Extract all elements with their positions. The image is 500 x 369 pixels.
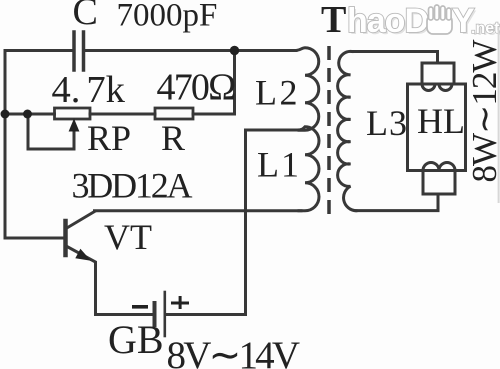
inductor L1 winding [297, 127, 319, 211]
svg-text:8V∼14V: 8V∼14V [167, 334, 300, 369]
battery minus sign [132, 305, 148, 309]
lamp HL top filaments [422, 84, 452, 91]
lamp HL tube body [408, 84, 466, 171]
wire emitter to battery minus [96, 313, 153, 316]
transistor VT base bar [63, 221, 68, 255]
wire top-left from left rail to capacitor [5, 49, 72, 52]
svg-text:7000pF: 7000pF [117, 0, 218, 34]
RP wiper arrowhead [69, 119, 80, 132]
svg-text:470Ω: 470Ω [157, 67, 236, 109]
wire RP to R [90, 113, 155, 116]
battery plus sign [171, 296, 189, 309]
wire base [5, 237, 64, 240]
wire right rail battery to tap [244, 130, 247, 315]
inductor L2 winding [296, 48, 319, 131]
wire left rail [4, 51, 7, 239]
svg-text:RP: RP [87, 118, 131, 158]
junction node left rail [1, 110, 10, 119]
svg-text:VT: VT [104, 217, 152, 257]
wire bias row to RP [5, 113, 55, 116]
capacitor C1 plates [74, 32, 84, 70]
transformer core dashed line [327, 46, 331, 214]
junction node wiper return [23, 110, 32, 119]
junction node top [230, 46, 239, 55]
wire L3 top to lamp [352, 52, 438, 64]
svg-text:C: C [73, 0, 98, 33]
wire collector row to L1 bottom [95, 209, 302, 212]
svg-text:T: T [321, 0, 346, 41]
lamp HL bottom cap [423, 171, 455, 195]
scan artifact line right edge [498, 30, 500, 203]
battery GB short plate [153, 303, 157, 325]
svg-text:L3: L3 [366, 103, 408, 143]
VT emitter arrowhead [75, 249, 91, 261]
svg-text:HL: HL [417, 101, 465, 141]
svg-text:3DD12A: 3DD12A [72, 166, 193, 206]
wire tap row [246, 129, 300, 132]
svg-text:L2: L2 [255, 73, 300, 113]
resistor RP body [55, 108, 91, 119]
inductor L3 winding [338, 51, 356, 210]
wire battery plus to right rail [166, 313, 246, 316]
wire L3 bottom to lamp bottom [356, 194, 438, 211]
RP wiper arrow stem [28, 116, 74, 149]
svg-text:8W∼12W: 8W∼12W [465, 40, 500, 183]
svg-text:L1: L1 [257, 145, 301, 185]
svg-text:haoD: haoD [347, 2, 428, 40]
svg-text:4.7k: 4.7k [52, 69, 126, 111]
transistor VT emitter lead [66, 246, 96, 315]
svg-text:GB: GB [108, 317, 164, 362]
wire top from capacitor to L2 top [86, 49, 296, 52]
lamp HL top cap [422, 63, 454, 84]
wire R right to top junction [193, 52, 235, 114]
svg-text:R: R [161, 118, 185, 158]
transistor VT collector lead [66, 212, 95, 229]
watermark haoDY.net [347, 2, 500, 42]
resistor R body [155, 108, 193, 119]
svg-text:.net: .net [471, 20, 500, 37]
battery GB long plate [164, 292, 167, 336]
lamp HL bottom filaments [423, 163, 455, 171]
